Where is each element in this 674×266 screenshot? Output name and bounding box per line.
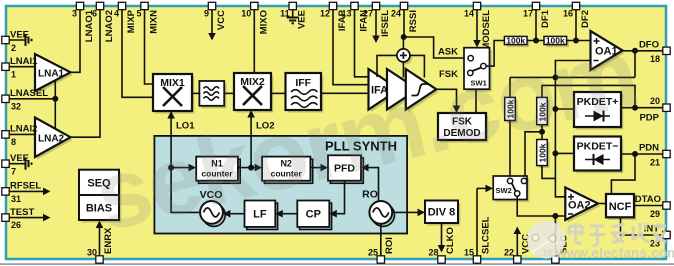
pin square 29 xyxy=(663,202,670,209)
summer circle xyxy=(397,49,410,62)
wire N1 to N2 xyxy=(238,164,262,172)
block FSK DEMOD xyxy=(438,113,486,140)
wire LNA2 out to pin 6 xyxy=(71,9,101,137)
mixer MIX2 xyxy=(234,73,271,110)
label SEQ xyxy=(87,178,111,190)
wire CP to LF xyxy=(275,210,297,218)
pin square 20 xyxy=(663,104,670,111)
svg-text:21: 21 xyxy=(650,158,660,168)
wire RO to pin 25 ROI xyxy=(380,224,382,257)
wire RSSI node to ASK contact xyxy=(404,37,469,58)
node LO2 junction xyxy=(249,165,253,169)
svg-text:CLKO: CLKO xyxy=(445,227,456,254)
pin 22 VCC labels xyxy=(504,234,532,258)
wire R3 to SW2 xyxy=(509,121,511,178)
svg-text:IFSEL: IFSEL xyxy=(380,10,391,37)
pin square 3 xyxy=(76,2,83,9)
svg-text:CP: CP xyxy=(306,209,321,221)
wire IFA out to FSK DEMOD xyxy=(436,89,460,113)
wire OA2 out to NCF xyxy=(598,203,606,205)
node PKDET+ input junction xyxy=(553,107,557,111)
wire VCO to N1 xyxy=(171,164,200,213)
svg-text:TEST: TEST xyxy=(10,207,34,218)
resistor R2 100k xyxy=(544,36,567,44)
pin 2 VEE wire xyxy=(8,39,25,41)
svg-text:29: 29 xyxy=(650,209,660,219)
svg-text:8: 8 xyxy=(11,137,16,147)
svg-text:SW2: SW2 xyxy=(496,186,512,195)
pin 16 DF2 wire xyxy=(575,9,577,41)
pin square 15 xyxy=(473,256,480,263)
amplifier IFA stage 2 xyxy=(387,69,418,110)
node PKDET- input junction xyxy=(553,151,557,155)
wire LO1 to MIX1 xyxy=(167,111,175,168)
svg-text:MODSEL: MODSEL xyxy=(481,10,492,51)
wire PKDET- output to pin 21 PDN xyxy=(621,153,664,155)
pin square 12 xyxy=(329,2,336,9)
wire R2 to OA1 plus xyxy=(567,40,591,42)
label RO xyxy=(362,189,378,201)
label R2 100k xyxy=(546,36,565,46)
pin 7 VEE labels xyxy=(10,153,29,176)
wire RO to PFD xyxy=(361,164,379,202)
pin 14 MODSEL arrow xyxy=(473,9,481,48)
pin 8 LNAI2 labels xyxy=(10,124,37,147)
label NCF xyxy=(609,201,632,213)
wire N2 to PFD xyxy=(310,164,328,172)
pin square 17 xyxy=(532,2,539,9)
ground symbol pin 7 xyxy=(26,158,32,170)
watermark chinese characters xyxy=(569,223,666,246)
svg-text:27: 27 xyxy=(363,9,373,19)
pin 8 LNAI2 wire xyxy=(8,133,35,135)
label PLL SYNTH xyxy=(325,139,397,154)
svg-text:10: 10 xyxy=(241,9,251,19)
pin 19 SLC wire xyxy=(554,216,556,257)
node DF1 junction xyxy=(534,38,538,42)
pin square 4 xyxy=(118,2,125,9)
wire LNA1 out to pin 3 xyxy=(71,9,81,72)
node DF2 junction xyxy=(574,38,578,42)
pin square 23 xyxy=(663,231,670,238)
block CP xyxy=(297,201,329,227)
pin 4 MIXP labels xyxy=(114,9,137,34)
switch SW1 xyxy=(464,48,490,89)
wire DIV8 to pin 28 CLKO xyxy=(438,223,446,253)
svg-text:VEE: VEE xyxy=(297,10,308,29)
label BIAS xyxy=(86,203,112,215)
svg-text:28: 28 xyxy=(428,248,438,258)
op-amp OA2 xyxy=(565,187,598,220)
wire NCF out to pin 29 DTAO xyxy=(634,205,664,207)
svg-text:PDN: PDN xyxy=(639,143,659,154)
pin square 13 xyxy=(351,2,358,9)
wire SW1 common to R1 xyxy=(486,41,504,67)
wire IFF to IFA xyxy=(321,92,369,94)
wire bus B xyxy=(542,85,635,107)
wire OA1 minus input xyxy=(555,61,590,78)
pin square 5 xyxy=(141,2,148,9)
svg-text:LNA2: LNA2 xyxy=(38,134,65,145)
pin 4 MIXP wire xyxy=(122,9,153,97)
svg-text:RSSI: RSSI xyxy=(408,10,419,32)
pin 5 MIXN labels xyxy=(136,9,159,34)
svg-text:7: 7 xyxy=(11,166,16,176)
pin 26 TEST labels xyxy=(10,207,34,230)
wire FSK DEMOD to FSK contact xyxy=(473,74,476,114)
svg-text:MIXP: MIXP xyxy=(126,9,137,33)
oscillator VCO xyxy=(200,201,223,224)
label R3 100k xyxy=(505,99,515,118)
wire summer to RSSI node xyxy=(402,37,404,49)
wire node chain to OA2 plus xyxy=(555,77,565,196)
pin 9 VCC labels xyxy=(204,9,227,31)
svg-text:11: 11 xyxy=(280,9,290,19)
pin 30 ENRX wire xyxy=(96,221,104,258)
pin 23 INT labels xyxy=(644,224,660,249)
pin square 24 xyxy=(400,2,407,9)
label N2 counter xyxy=(271,159,303,179)
wire OA1 output to pin 18 DFO xyxy=(623,50,664,52)
pin 25 ROI labels xyxy=(368,237,395,257)
node R4 R5 junction xyxy=(540,130,544,134)
resistor R5 100k vertical xyxy=(537,140,548,166)
svg-text:MIXN: MIXN xyxy=(149,10,160,34)
pin 12 IFAP wire xyxy=(333,9,369,85)
label SW1 xyxy=(471,79,487,88)
pin square 28 xyxy=(438,256,445,263)
pin 31 RFSEL labels xyxy=(10,181,41,204)
svg-text:26: 26 xyxy=(11,220,21,230)
wire RSSI taps to summer xyxy=(377,55,424,77)
svg-text:13: 13 xyxy=(341,9,351,19)
svg-text:24: 24 xyxy=(391,9,401,19)
svg-text:15: 15 xyxy=(464,248,474,258)
label OA1 xyxy=(595,46,618,58)
pin 10 MIXO labels xyxy=(241,9,269,35)
pin 26 TEST wire xyxy=(8,214,51,222)
pin 15 SLCSEL labels xyxy=(464,216,492,257)
svg-text:18: 18 xyxy=(650,54,660,64)
amplifier LNA2 xyxy=(35,118,71,158)
label PKDET- xyxy=(577,141,619,153)
svg-text:LNAI2: LNAI2 xyxy=(10,124,37,135)
label N1 counter xyxy=(201,159,233,179)
svg-text:IFF: IFF xyxy=(295,77,311,89)
pin 11 VEE labels xyxy=(280,9,308,30)
svg-text:DF1: DF1 xyxy=(540,9,551,28)
pin square 30 xyxy=(96,256,103,263)
block LF xyxy=(245,201,276,227)
amplifier IFA stage 3 (limiter) xyxy=(406,69,437,110)
wire PKDET+ output to pin 20 PDP xyxy=(621,107,664,109)
node PDP junction xyxy=(633,106,637,110)
svg-text:ROI: ROI xyxy=(384,237,395,254)
label ASK xyxy=(438,47,458,58)
pin square 6 xyxy=(96,2,103,9)
filter F1 between mixers xyxy=(199,81,224,106)
block PFD xyxy=(328,155,361,180)
node OA1 output junction xyxy=(633,49,637,53)
wire PDN junction to NCF top xyxy=(611,154,635,194)
wire feedback bus A xyxy=(510,77,635,97)
pin square 11 xyxy=(289,2,296,9)
pin 24 RSSI wire xyxy=(403,9,405,37)
block drop shadows xyxy=(37,34,636,226)
wire PKDET- input xyxy=(555,152,574,154)
label LNA1 xyxy=(38,69,65,80)
pin 7 VEE wire xyxy=(8,163,25,165)
svg-text:DFO: DFO xyxy=(639,40,659,51)
node bus A junction xyxy=(553,75,557,79)
node RSSI junction xyxy=(402,35,406,39)
wire SLCSEL to SW2 arrow xyxy=(477,185,493,257)
pin square 16 xyxy=(572,2,579,9)
block shadows inside PLL xyxy=(199,158,395,230)
svg-text:OA2: OA2 xyxy=(568,200,591,212)
pin 17 DF1 labels xyxy=(523,9,551,28)
pin square 7 xyxy=(2,160,9,167)
pin 32 LNASEL wire xyxy=(8,80,55,129)
label R1 100k xyxy=(506,36,525,46)
label DIV 8 xyxy=(428,207,456,219)
node SLC junction xyxy=(553,214,557,218)
pin square 10 xyxy=(251,2,258,9)
pin 1 LNAI1 wire xyxy=(8,66,35,68)
pin square 2 xyxy=(2,36,9,43)
pin 16 DF2 labels xyxy=(563,9,591,28)
diode in PKDET- xyxy=(585,154,610,165)
pin square 22 xyxy=(514,256,521,263)
wire LO2 to MIX2 xyxy=(247,110,255,168)
pin 10 MIXO wire xyxy=(253,9,255,73)
svg-text:17: 17 xyxy=(523,9,533,19)
pin 21 PDN labels xyxy=(639,143,660,168)
wire F1 to MIX2 xyxy=(224,92,234,94)
pin 12 IFAP labels xyxy=(320,9,348,32)
svg-text:31: 31 xyxy=(11,194,21,204)
svg-text:1: 1 xyxy=(11,70,16,80)
pin 19 SLC labels xyxy=(542,235,570,258)
node VCO feedback junction xyxy=(169,165,173,169)
label R5 100k xyxy=(537,143,547,162)
amplifier LNA1 xyxy=(35,54,71,91)
block BIAS xyxy=(79,195,119,220)
wire R4 to R5 xyxy=(541,125,543,140)
wire MIX1 to F1 xyxy=(192,92,199,94)
pin 27 IFSEL arrow xyxy=(372,9,380,43)
pin 13 IFAN labels xyxy=(341,9,369,32)
svg-text:LNAI1: LNAI1 xyxy=(10,56,38,67)
pin 31 RFSEL wire xyxy=(8,188,51,196)
wire LF to VCO xyxy=(223,210,245,218)
mixer MIX1 xyxy=(153,74,192,111)
pin 20 PDP labels xyxy=(639,96,660,124)
svg-text:2: 2 xyxy=(11,43,16,53)
label CP xyxy=(306,209,321,221)
svg-text:MIX1: MIX1 xyxy=(160,77,185,89)
bottom grey page line xyxy=(0,263,674,265)
svg-text:LNA1: LNA1 xyxy=(38,69,65,80)
label MIX2 xyxy=(240,76,265,88)
resistor R3 100k vertical xyxy=(505,97,516,120)
pin square 25 xyxy=(377,256,384,263)
label IFF xyxy=(295,77,311,89)
svg-text:LNASEL: LNASEL xyxy=(10,88,48,99)
wire PFD to CP xyxy=(329,181,344,218)
pin 28 CLKO labels xyxy=(428,227,456,257)
pin 14 MODSEL labels xyxy=(464,9,492,51)
ground symbol pin 2 xyxy=(26,34,32,46)
label LNA2 xyxy=(38,134,65,145)
pin 13 IFAN wire xyxy=(355,9,369,77)
wire junction to SW2 right contact xyxy=(525,132,542,177)
op-amp OA1 xyxy=(591,31,623,70)
switch SW2 xyxy=(493,176,527,200)
svg-text:RFSEL: RFSEL xyxy=(10,181,41,192)
svg-text:20: 20 xyxy=(650,96,660,106)
pin 22 VCC arrow xyxy=(514,227,522,258)
pin square 18 xyxy=(663,47,670,54)
pin 30 ENRX labels xyxy=(87,227,114,258)
pin 3 LNAO1 labels xyxy=(72,9,95,43)
watermark elecfans logo circle xyxy=(527,221,565,259)
wire R1 to R2 xyxy=(527,40,544,42)
pin 29 DTAO labels xyxy=(635,194,661,219)
pin square 8 xyxy=(2,131,9,138)
label IFA xyxy=(371,84,388,96)
pin square 9 xyxy=(208,2,215,9)
pin 24 RSSI labels xyxy=(391,9,419,33)
block N2 counter xyxy=(262,157,310,181)
block PKDET+ xyxy=(574,92,621,127)
svg-text:12: 12 xyxy=(320,9,330,19)
wire MIX2 to IFF xyxy=(271,92,286,94)
pin 11 VEE wire xyxy=(292,9,294,17)
wire OA1 feedback down xyxy=(634,51,636,78)
pin 9 VCC arrow xyxy=(208,9,216,41)
label PFD xyxy=(334,163,355,175)
pin 2 VEE labels xyxy=(10,30,29,54)
block N1 counter xyxy=(196,157,238,181)
svg-text:14: 14 xyxy=(464,9,474,19)
label FSK xyxy=(439,69,458,80)
label PKDET+ xyxy=(577,96,619,108)
watermark www.elecfans.com xyxy=(555,246,674,261)
pin square 26 xyxy=(2,214,9,221)
svg-text:SLCSEL: SLCSEL xyxy=(481,216,492,254)
pin 17 DF1 wire xyxy=(535,9,537,41)
wire PKDET+ input xyxy=(555,108,574,110)
wire RO to DIV8 xyxy=(392,209,425,217)
pin square 21 xyxy=(663,150,670,157)
label FSK DEMOD xyxy=(443,117,480,140)
pin square 1 xyxy=(2,63,9,70)
amplifier IFA stage 1 xyxy=(369,69,400,110)
pin 32 LNASEL labels xyxy=(10,88,48,112)
diode in PKDET+ xyxy=(585,111,610,122)
svg-text:16: 16 xyxy=(563,9,573,19)
pin square 19 xyxy=(552,256,559,263)
svg-text:www.elecfans.com: www.elecfans.com xyxy=(555,246,674,261)
label VCO xyxy=(200,189,223,201)
ground symbol pin 11 xyxy=(287,18,299,24)
svg-text:VEE: VEE xyxy=(10,30,29,41)
pin square 14 xyxy=(473,2,480,9)
svg-text:VCC: VCC xyxy=(216,10,227,30)
resistor R1 100k xyxy=(504,36,527,44)
svg-text:MIXO: MIXO xyxy=(258,10,269,34)
oscillator RO xyxy=(369,201,392,224)
svg-text:DIV 8: DIV 8 xyxy=(428,207,456,219)
node PDN junction xyxy=(633,152,637,156)
svg-text:VEE: VEE xyxy=(10,153,29,164)
svg-text:32: 32 xyxy=(11,102,21,112)
label SW2 xyxy=(496,186,512,195)
node LNASEL junction xyxy=(53,97,57,101)
svg-text:PKDET−: PKDET− xyxy=(577,141,619,153)
svg-text:22: 22 xyxy=(504,248,514,258)
label LO1 xyxy=(176,121,195,132)
resistor R4 100k vertical xyxy=(537,97,548,124)
block PKDET- xyxy=(574,137,621,171)
wire SW2 common to OA2 minus xyxy=(517,196,565,216)
label LO2 xyxy=(256,121,274,132)
label OA2 xyxy=(568,200,591,212)
block PLL SYNTH background xyxy=(154,136,407,234)
filter IFF xyxy=(286,73,322,110)
label MIX1 xyxy=(160,77,185,89)
svg-text:DTAO: DTAO xyxy=(635,194,661,205)
pin 18 DFO labels xyxy=(639,40,660,65)
pin 6 LNAO2 labels xyxy=(92,9,115,43)
block DIV 8 xyxy=(425,201,458,224)
block NCF xyxy=(606,194,634,217)
pin 5 MIXN wire xyxy=(145,9,154,84)
svg-text:NCF: NCF xyxy=(609,201,632,213)
label R4 100k xyxy=(537,102,547,121)
svg-text:MIX2: MIX2 xyxy=(240,76,265,88)
wire R5 to slicer reference node xyxy=(542,166,555,179)
watermark sekorm.com diagonal xyxy=(85,17,647,252)
pin square 27 xyxy=(372,2,379,9)
pin 27 IFSEL labels xyxy=(363,9,391,37)
label LF xyxy=(253,209,267,221)
svg-text:ASK: ASK xyxy=(438,47,458,58)
pin square 32 xyxy=(2,95,9,102)
block SEQ xyxy=(79,170,119,195)
wire NCF bottom to pin 23 INT xyxy=(621,217,665,235)
pin 1 LNAI1 labels xyxy=(10,56,38,80)
pin square 31 xyxy=(2,188,9,195)
